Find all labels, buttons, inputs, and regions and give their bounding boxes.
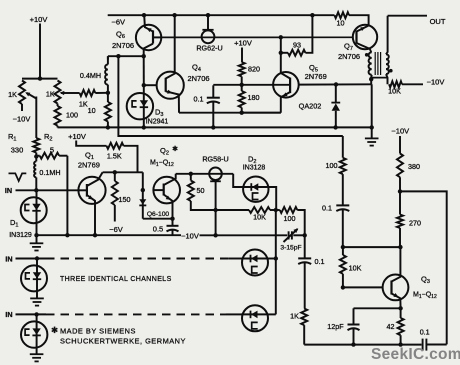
node rail 93 riser (310, 13, 314, 17)
node 380/270 junction (398, 189, 402, 193)
wire rail continues to trimmer (200, 234, 306, 236)
node riser junction (116, 54, 120, 58)
label 5 (50, 146, 54, 155)
svg-text:Q6-100: Q6-100 (147, 211, 170, 218)
wire coil to IN node (35, 177, 37, 190)
summing diode channel 2 circle (242, 250, 268, 276)
label Q2 (160, 146, 169, 157)
resistor 380 (397, 154, 403, 192)
wiper arrow of right pot (60, 91, 67, 95)
transistor Q5 emitter (281, 92, 290, 113)
wire +10V stub to 820 (241, 48, 243, 63)
ground (channel 3) (30, 354, 44, 361)
node channel 3 input (34, 312, 38, 316)
node 820/180 junction (240, 83, 244, 87)
transistor Q2 base bar (163, 184, 165, 196)
node Q5 collector 93 junction (279, 51, 283, 55)
svg-text:5: 5 (50, 146, 54, 155)
label RG62-U (196, 44, 222, 53)
ground (channel 1) (30, 235, 44, 250)
wire bottom rail channel 1 (37, 234, 182, 236)
tunnel diode channel 2 circle (21, 259, 47, 298)
diode D2 C glyph (253, 193, 259, 200)
label Q5 (309, 63, 318, 74)
label 2N706 (Q7) (338, 52, 360, 61)
transistor Q6 collector down (144, 44, 153, 57)
svg-text:100: 100 (326, 161, 338, 170)
node 180 bottom junction (240, 111, 244, 115)
transistor Q4 emitter (166, 90, 179, 113)
wire 1.5K to collector bus (124, 146, 138, 173)
diode D3 triangle (140, 100, 148, 107)
asterisk (Q2) (172, 145, 178, 153)
label 100 (horizontal) (284, 214, 296, 223)
svg-text:380: 380 (408, 162, 420, 171)
svg-text:✱: ✱ (172, 145, 178, 153)
wire Q3 collector bus (343, 246, 401, 248)
transistor Q3 collector (392, 247, 401, 281)
svg-text:0.1: 0.1 (420, 328, 430, 337)
power label -10V (380 column) (391, 126, 409, 135)
wire wiper to 1K series (67, 92, 80, 94)
diode QA202 (331, 84, 340, 127)
label 0.4MH (80, 71, 101, 80)
power label -10V (left pot) (13, 115, 31, 124)
transistor Q2 emitter (164, 195, 173, 227)
svg-text:0.4MH: 0.4MH (80, 71, 101, 80)
node coil/10 junction (106, 91, 110, 95)
svg-text:150: 150 (119, 195, 131, 204)
wire Q4 base lead (144, 84, 157, 86)
wire Q2 base column (142, 172, 144, 218)
svg-text:2N769: 2N769 (305, 72, 327, 81)
resistor 10K (Q3 column) (340, 247, 346, 287)
label 42 (387, 322, 395, 331)
diode channel 3 triangle (32, 328, 40, 335)
svg-text:+10V: +10V (234, 39, 252, 48)
svg-text:MADE BY SIEMENS: MADE BY SIEMENS (60, 327, 136, 336)
svg-text:10K: 10K (388, 87, 401, 96)
wire IN lead channel 1 (16, 189, 79, 191)
label Q6 (116, 30, 125, 41)
svg-text:0.1MH: 0.1MH (39, 168, 60, 177)
svg-text:−6V: −6V (109, 225, 123, 234)
trimmer capacitor 3-15pF (284, 228, 299, 242)
svg-text:SCHUCKERTWERKE, GERMANY: SCHUCKERTWERKE, GERMANY (60, 337, 186, 346)
coax RG62-U symbol (202, 15, 215, 43)
node 10 bottom junction (106, 125, 110, 129)
label D1 (10, 218, 18, 229)
svg-text:2N706: 2N706 (187, 74, 209, 83)
node transformer bottom junction (369, 77, 373, 81)
resistor 50 (188, 174, 198, 210)
label 330 (11, 146, 24, 155)
transistor Q5 base bar (289, 78, 291, 94)
node D3 bottom junction (142, 125, 146, 129)
wire top rail -6V (108, 14, 335, 16)
node Q3 base junction (341, 285, 345, 289)
wire Q3 base lead (343, 286, 383, 288)
label 3-15pF (280, 245, 301, 252)
port label OUT (430, 17, 446, 26)
summing diode channel 2 triangle (251, 255, 258, 263)
wire Q6-100 to emitter (143, 218, 173, 220)
diode channel 2 triangle (33, 272, 41, 279)
transistor Q2 collector (164, 174, 176, 185)
resistor 820 (239, 62, 245, 85)
svg-text:0.1: 0.1 (315, 257, 325, 266)
power label -6V (top rail) (112, 18, 126, 27)
label 10K (horizontal) (253, 213, 266, 222)
node Q4 base junction (142, 83, 146, 87)
label 0.1 (Q3 column) (322, 204, 332, 213)
label MADE BY SIEMENS (60, 327, 136, 336)
dashed wire channel 2 (46, 258, 242, 260)
label 270 (409, 219, 421, 228)
transistor Q3 circle (383, 275, 409, 301)
svg-text:820: 820 (248, 65, 260, 74)
wire channel 2 diode out (268, 258, 276, 260)
wire +10V drop (39, 24, 41, 79)
svg-text:−10V: −10V (391, 126, 409, 135)
wire 12pF branch (354, 307, 401, 309)
label 380 (408, 162, 420, 171)
wire bottom bus (304, 344, 421, 346)
svg-text:93: 93 (293, 41, 301, 50)
input pulse waveform glyph (9, 173, 27, 181)
wire Q5 output bus (299, 83, 372, 85)
node Q3 emitter junction (398, 306, 402, 310)
label Q6-100 (147, 211, 170, 218)
diode Q6-100 (139, 199, 146, 205)
node R2 rail junction (65, 233, 69, 237)
power label +10V (Q5 stage) (234, 39, 252, 48)
power label -6V (below 150) (109, 225, 123, 234)
svg-text:0.1: 0.1 (322, 204, 332, 213)
label Q4 (192, 63, 201, 74)
svg-text:SeekIC.com: SeekIC.com (371, 346, 460, 363)
transistor Q7 emitter (357, 43, 372, 52)
node D1 ground junction (34, 233, 38, 237)
resistor 1K (bottom) (301, 309, 307, 345)
wire Q5 emitter corner (242, 112, 281, 114)
diode D1 L glyph (25, 205, 30, 211)
transistor Q4 collector (166, 15, 175, 78)
label 0.1 (mid column) (315, 257, 325, 266)
transistor Q1 base bar (86, 184, 88, 197)
power label -10V (inline rail) (181, 231, 199, 240)
node channel 2 input (35, 256, 39, 260)
transistor Q5 circle (273, 72, 299, 98)
svg-text:QA202: QA202 (299, 102, 322, 111)
power label -10V (secondary) (427, 77, 445, 86)
label 50 (197, 186, 205, 195)
svg-text:RG58-U: RG58-U (202, 155, 228, 164)
label 2N769 (Q5) (305, 72, 327, 81)
node Q3 collector bus right (398, 245, 402, 249)
capacitor 0.1 (Q3 column) (336, 205, 349, 247)
resistor 10 (top) (335, 12, 350, 18)
port label IN (channel 3) (5, 310, 12, 319)
svg-text:42: 42 (387, 322, 395, 331)
coax RG58-U symbol (209, 168, 222, 236)
svg-text:10K: 10K (253, 213, 266, 222)
diode D2 triangle (251, 183, 258, 191)
resistor R1 330 (33, 138, 39, 153)
label 820 (248, 65, 260, 74)
svg-text:1K: 1K (79, 99, 88, 108)
node rail Q4 (172, 13, 176, 17)
svg-text:IN2941: IN2941 (146, 119, 169, 126)
wire pot top bus (22, 78, 58, 80)
wiper arrow of left pot (25, 92, 36, 98)
node rail Q6 (142, 13, 146, 17)
transistor Q5 base lead (273, 84, 290, 86)
label D2 (248, 155, 256, 166)
label 0.1 (bottom right) (420, 328, 430, 337)
node QA202 junction (334, 82, 338, 86)
svg-text:−10V: −10V (427, 77, 445, 86)
label 0.5 (153, 224, 163, 233)
tunnel diode D3 circle (127, 85, 153, 127)
wire RG58 to D2 (233, 174, 243, 187)
wire IN lead channel 3 (16, 313, 47, 315)
wire long riser to lower bus (118, 56, 342, 136)
label RG58-U (202, 155, 228, 164)
svg-text:2N706: 2N706 (338, 52, 360, 61)
label QA202 (299, 102, 322, 111)
transistor Q6 emitter up (144, 15, 153, 32)
node Q3 collector bus left (341, 245, 345, 249)
resistor 100 (horizontal) (280, 207, 298, 213)
transistor Q2 circle (153, 177, 180, 204)
label R2 (44, 132, 52, 143)
tunnel diode channel 3 circle (21, 314, 47, 353)
summing diode channel 3 C glyph (252, 322, 258, 329)
label 10K (secondary) (388, 87, 401, 96)
svg-text:2N769: 2N769 (78, 160, 100, 169)
capacitor 0.1 (Q5 base) (207, 85, 220, 127)
label 100 (Q3 column) (326, 161, 338, 170)
wire D2 to bus (269, 187, 277, 210)
wire R1 to R2 junction (35, 153, 37, 162)
resistor R2 5 (horizontal) (34, 153, 59, 159)
resistor 10 (vertical) (105, 93, 111, 128)
node RG58 shield at 10K bus (213, 208, 217, 212)
svg-text:1K: 1K (46, 90, 55, 99)
transistor Q6 base lead right (153, 36, 161, 38)
transformer core (375, 52, 380, 75)
label 0.1 (Q5 base) (194, 95, 204, 104)
node RG58 shield at rail (213, 233, 217, 237)
wire base bus Q6 to Q7 (161, 36, 352, 38)
svg-text:IN: IN (5, 310, 12, 319)
svg-text:IN: IN (5, 186, 12, 195)
label 2N769 (Q1) (78, 160, 100, 169)
wire bottom bus to right edge (426, 344, 446, 346)
phasing dot secondary (389, 69, 393, 73)
node 12pF bottom junction (351, 342, 355, 346)
capacitor 12pF (348, 308, 360, 344)
label 10 (top) (337, 18, 345, 27)
svg-text:12pF: 12pF (327, 322, 344, 331)
diode channel 3 L glyph (25, 329, 30, 335)
wire Q1 collector bus (103, 171, 143, 173)
svg-text:0.1: 0.1 (194, 95, 204, 104)
svg-text:THREE IDENTICAL CHANNELS: THREE IDENTICAL CHANNELS (60, 276, 172, 283)
label D3 (155, 108, 163, 119)
power label +10V (top left) (30, 15, 48, 24)
svg-text:1K: 1K (290, 312, 299, 321)
capacitor 0.1 (mid column) (298, 235, 311, 308)
wire coil top corner (107, 56, 109, 59)
node Q2 base junction (141, 188, 145, 192)
summing diode channel 3 circle (241, 305, 268, 331)
label R1 (8, 132, 16, 143)
wire 0.5 cap to rail (172, 230, 174, 235)
svg-text:OUT: OUT (430, 17, 446, 26)
svg-text:100: 100 (66, 111, 78, 120)
power label +10V (Q1 stage) (68, 132, 86, 141)
label 1K (right pot) (46, 90, 55, 99)
watermark SeekIC.com (371, 346, 460, 363)
label 1K (bottom) (290, 312, 299, 321)
svg-text:180: 180 (248, 93, 260, 102)
svg-text:1K: 1K (8, 90, 17, 99)
wire IN lead channel 2 (16, 258, 47, 260)
wire Q6 collector bus (108, 55, 144, 57)
resistor 1.5K (107, 143, 124, 149)
resistor 93 (281, 50, 306, 56)
node channel2 diode junction (274, 256, 278, 260)
label 180 (248, 93, 260, 102)
resistor 270 (397, 191, 403, 247)
transistor Q1 emitter (87, 195, 95, 235)
transistor Q6 circle (136, 25, 161, 50)
potentiometer 1K (right) (55, 81, 61, 104)
svg-text:RG62-U: RG62-U (196, 44, 222, 53)
resistor 42 (398, 308, 404, 344)
node Q2 emitter junction (170, 217, 174, 221)
node Q6 collector junction (142, 54, 146, 58)
wire wiper drop to R1 (35, 97, 37, 139)
svg-text:−10V: −10V (13, 115, 31, 124)
transformer bottom bar (371, 77, 387, 79)
label 0.1MH (39, 168, 60, 177)
transistor Q1 collector (87, 172, 103, 186)
resistor 100 (below right pot) (55, 104, 61, 128)
svg-text:0.5: 0.5 (153, 224, 163, 233)
node QA202 bottom junction (333, 125, 337, 129)
svg-text:✱: ✱ (51, 325, 58, 335)
node +10V/pots junction (38, 76, 42, 80)
wire Q2 collector bus (176, 173, 234, 175)
svg-text:50: 50 (197, 186, 205, 195)
diode D2 circle (243, 177, 268, 202)
resistor 10K (secondary) (389, 81, 423, 87)
wire -10V stub (399, 136, 401, 154)
inductor 0.4MH (105, 56, 108, 93)
wire 50 bottom bus (198, 209, 249, 211)
svg-text:2N706: 2N706 (112, 41, 134, 50)
label 100 (66, 111, 78, 120)
label 2N706 (Q6) (112, 41, 134, 50)
wire R2 drop (59, 156, 67, 236)
asterisk (Q7) (365, 53, 369, 57)
inductor 0.1MH (34, 161, 36, 177)
label 1K (series) (79, 99, 88, 108)
node Q5 collector base-bus junction (279, 35, 283, 39)
ground (channel 2) (30, 298, 44, 305)
label IN3129 (9, 232, 32, 239)
transistor Q7 base bar (355, 31, 357, 44)
resistor 180 (239, 85, 245, 113)
tunnel diode D1 circle (21, 190, 47, 235)
resistor 150 (112, 172, 118, 221)
svg-text:10K: 10K (349, 264, 362, 273)
wire OUT (388, 15, 427, 17)
asterisk footnote (51, 325, 58, 335)
node 50 top junction (189, 172, 193, 176)
label THREE IDENTICAL CHANNELS (60, 276, 172, 283)
diode D1 triangle (32, 204, 40, 211)
transistor Q4 circle (157, 72, 184, 99)
wire ground column (371, 84, 373, 127)
transistor Q7 collector (357, 26, 369, 32)
wire +10V elbow to 1.5K (76, 141, 106, 146)
wire 100 to column corner (297, 210, 304, 235)
ground (Q7 emitter) (365, 127, 379, 145)
wire lower bus (58, 126, 372, 128)
transistor Q1 circle (78, 177, 105, 204)
svg-text:−10V: −10V (181, 231, 199, 240)
transistor Q3 base bar (390, 281, 392, 295)
potentiometer 1K (left) (19, 81, 25, 112)
svg-text:−6V: −6V (112, 18, 126, 27)
capacitor 0.1 (bottom right) (423, 339, 427, 351)
node 0.1 cap bottom junction (211, 125, 215, 129)
svg-text:10: 10 (88, 106, 96, 115)
summing diode channel 2 C glyph (252, 267, 258, 274)
node rail RG62 (206, 13, 210, 17)
node 42 bottom junction (398, 342, 402, 346)
label 1.5K (107, 151, 122, 160)
label 12pF (327, 322, 344, 331)
wire 93 riser to rail (305, 15, 312, 53)
label IN3128 (243, 165, 266, 172)
wire channel 3 diode out (268, 313, 276, 315)
node ground column junction (370, 125, 374, 129)
diode D3 L glyph (132, 101, 137, 107)
resistor 1K (series horizontal) (80, 90, 96, 96)
label 10K (Q3 column) (349, 264, 362, 273)
label SCHUCKERTWERKE GERMANY (60, 337, 186, 346)
resistor 10K (horizontal) (249, 207, 270, 213)
svg-text:3-15pF: 3-15pF (280, 245, 301, 252)
label Q7 (344, 42, 353, 53)
wire Q5 base bus (213, 84, 273, 86)
svg-text:+10V: +10V (68, 132, 86, 141)
svg-text:+10V: +10V (30, 15, 48, 24)
label IN2941 (146, 119, 169, 126)
diode channel 2 L glyph (26, 273, 31, 279)
wire diode summing bus (vertical) (275, 210, 277, 314)
transistor Q2 base lead (153, 189, 163, 191)
transistor Q3 emitter (392, 293, 401, 308)
wire feedback to right edge (400, 191, 447, 344)
transistor Q6 base bar (152, 30, 154, 43)
dashed wire channel 3 (46, 313, 241, 315)
